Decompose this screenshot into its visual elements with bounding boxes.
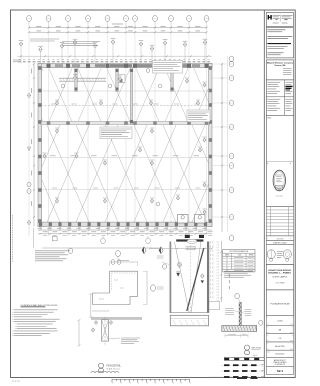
svg-text:SIZE: SIZE bbox=[238, 255, 241, 257]
svg-text:xxxx: xxxx bbox=[290, 332, 293, 334]
svg-text:1: 1 bbox=[173, 383, 174, 385]
svg-text:1: 1 bbox=[113, 383, 114, 385]
svg-text:GRAPHIC SCALE: GRAPHIC SCALE bbox=[273, 242, 288, 245]
svg-text:1: 1 bbox=[181, 383, 182, 385]
svg-text:FOUNDATION WALL AND FOOTING NO: FOUNDATION WALL AND FOOTING NOTES bbox=[21, 304, 58, 307]
svg-text:NORTH CAMPUS: NORTH CAMPUS bbox=[273, 275, 288, 278]
svg-text:PLOT: 1/8: PLOT: 1/8 bbox=[12, 381, 20, 383]
svg-text:PLAN & DETAILS: PLAN & DETAILS bbox=[273, 361, 287, 364]
svg-text:xxxx: xxxx bbox=[290, 324, 293, 326]
svg-text:B: B bbox=[290, 163, 291, 165]
svg-text:F6: F6 bbox=[226, 262, 228, 264]
svg-text:3/4”=1’: 3/4”=1’ bbox=[253, 355, 259, 357]
svg-text:xx.xx.xxxx: xx.xx.xxxx bbox=[276, 196, 283, 198]
svg-text:AS NOTED: AS NOTED bbox=[275, 345, 285, 348]
svg-text:xxxx: xxxx bbox=[267, 351, 270, 353]
svg-text:1: 1 bbox=[164, 383, 165, 385]
svg-text:1: 1 bbox=[147, 383, 148, 385]
svg-text:BUILDING 2 — PHASE 1: BUILDING 2 — PHASE 1 bbox=[268, 272, 292, 275]
svg-text:1: 1 bbox=[156, 383, 157, 385]
svg-text:F7: F7 bbox=[226, 265, 228, 267]
svg-text:FOUNDATION PLAN: FOUNDATION PLAN bbox=[270, 302, 289, 305]
svg-text:REINF: REINF bbox=[249, 255, 254, 257]
svg-text:F4: F4 bbox=[226, 257, 228, 259]
svg-text:05/02/2022: 05/02/2022 bbox=[275, 354, 284, 356]
svg-text:1: 1 bbox=[121, 383, 122, 385]
svg-text:S2.1: S2.1 bbox=[277, 369, 284, 373]
svg-text:12345: 12345 bbox=[277, 320, 282, 322]
svg-text:F5: F5 bbox=[226, 260, 228, 262]
svg-text:xxxx: xxxx bbox=[290, 340, 293, 342]
svg-text:Tacoma, WA: Tacoma, WA bbox=[274, 64, 286, 67]
svg-text:SCALE: 3/4”=1’-0”: SCALE: 3/4”=1’-0” bbox=[107, 368, 121, 371]
svg-text:1: 1 bbox=[138, 383, 139, 385]
svg-text:1: 1 bbox=[190, 383, 191, 385]
svg-text:0 4 8 16: 0 4 8 16 bbox=[276, 238, 283, 240]
svg-text:1: 1 bbox=[130, 383, 131, 385]
svg-text:FDN DETAIL: FDN DETAIL bbox=[107, 364, 122, 367]
svg-text:xxxx: xxxx bbox=[290, 348, 293, 350]
svg-text:FOOTING SCHEDULE: FOOTING SCHEDULE bbox=[230, 251, 249, 253]
svg-text:SECTION: SECTION bbox=[251, 347, 261, 349]
svg-text:LEGACY HIGH SCHOOL: LEGACY HIGH SCHOOL bbox=[268, 269, 292, 272]
